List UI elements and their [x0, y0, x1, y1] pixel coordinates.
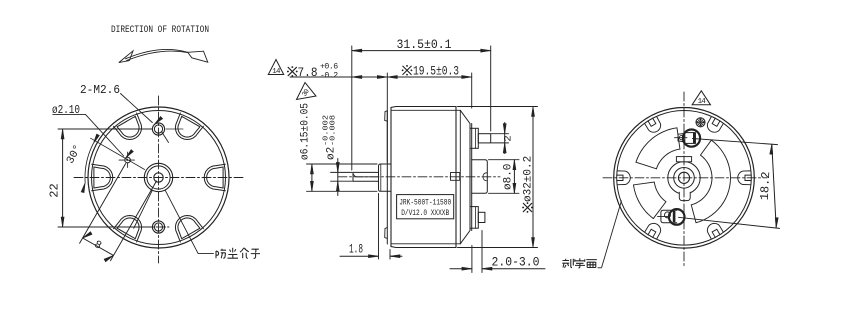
dimension ※ø32±0.2 can diameter [458, 106, 538, 108]
front view hole ø2.10 at 30deg [125, 157, 131, 163]
revision flag triangle 30 rotated [297, 83, 317, 100]
back view vent band right [691, 140, 730, 223]
side view name plate box [397, 195, 454, 219]
back view terminal bottom [669, 209, 685, 225]
back view boss top tab [676, 157, 691, 162]
svg-text:ø32±0.2: ø32±0.2 [523, 156, 535, 202]
side view front plate crimp tab bottom [385, 228, 388, 239]
angular dimension 30deg arc [85, 144, 93, 183]
back view center bearing boss circle [668, 162, 700, 194]
svg-text:2: 2 [503, 135, 515, 141]
back view warning triangle flag [692, 91, 710, 105]
dimension 22 (hole spacing) left side [58, 128, 152, 130]
front view vent slots (6x D-shaped cutouts) [204, 164, 225, 191]
svg-text:-0.2: -0.2 [320, 71, 338, 80]
front view 30deg radial construction line [91, 138, 145, 169]
svg-text:D/V12.0 XXXXB: D/V12.0 XXXXB [401, 208, 449, 218]
side view front plate [386, 111, 388, 245]
direction of rotation curved arrow [126, 49, 188, 58]
svg-text:18.2: 18.2 [758, 171, 773, 201]
side view shaft flat line [354, 174, 379, 177]
dimension 7.8 shaft length [386, 73, 388, 162]
back view inner rim circle [617, 111, 752, 246]
svg-text:7.8: 7.8 [298, 66, 318, 80]
svg-text:19.5±0.3: 19.5±0.3 [413, 64, 459, 78]
svg-text:ø2: ø2 [326, 147, 338, 160]
dimension ø8.0 rear boss [489, 159, 520, 161]
back view center circles [674, 168, 695, 189]
front view washer arm line lower-right / leader to dust-washer label [165, 190, 198, 253]
side view rear bearing boss [472, 160, 488, 194]
svg-text:2.0-3.0: 2.0-3.0 [492, 256, 540, 270]
svg-text:1.8: 1.8 [349, 243, 363, 257]
back view vent band lower-left [634, 182, 666, 219]
dimension 19.5±0.3 can length [471, 73, 473, 108]
svg-text:ø6.15±0.05: ø6.15±0.05 [300, 103, 312, 160]
front view outer circle (motor face) [88, 107, 229, 248]
dimension ø2 shaft diameter [331, 171, 352, 173]
back view crimp cups (6x) [738, 171, 750, 185]
svg-text:JRK-500T-11580: JRK-500T-11580 [399, 199, 451, 208]
svg-text:2-M2.6: 2-M2.6 [80, 83, 120, 97]
side view shaft [353, 171, 379, 173]
dimension 2.0-3.0 terminal length [471, 246, 473, 273]
side view brush window rect [451, 173, 460, 181]
svg-text:ø8.0: ø8.0 [503, 164, 515, 190]
back view vent band upper-left [636, 128, 680, 169]
front view shaft boss circles [144, 163, 172, 191]
svg-text:14: 14 [272, 68, 281, 76]
label dust washer characters [216, 249, 226, 259]
svg-text:-0.008: -0.008 [330, 115, 338, 146]
side view can inner rim lines [391, 109, 460, 111]
front view M2.6 mounting hole bottom [152, 221, 164, 233]
front view washer arm line lower-left [134, 190, 153, 228]
side view motor can body [391, 107, 456, 248]
dimension 18.2 terminal spacing oblique [693, 139, 778, 145]
back view phillips screw head [696, 118, 705, 127]
revision flag triangle 14 [268, 60, 283, 75]
label dust washer (fang chen jie zi) leader [198, 252, 213, 254]
side view front plate crimp tab top [385, 111, 388, 121]
svg-text:14: 14 [698, 98, 707, 106]
dimension 2 terminal thickness [492, 133, 509, 135]
back view centerline vertical [683, 92, 685, 268]
back view outer circle [614, 108, 755, 249]
svg-text:DIRECTION OF ROTATION: DIRECTION OF ROTATION [111, 25, 209, 36]
front view inner rim circle [92, 111, 226, 245]
dimension ø6.15±0.05 boss diameter [307, 163, 378, 165]
side view bearing boss [379, 164, 392, 191]
back view boss bottom notch [679, 192, 690, 200]
dimension 1.8 boss protrusion [378, 194, 380, 260]
side view rear pip [483, 173, 487, 181]
svg-text:22: 22 [48, 183, 62, 197]
dimension 8 oblique (hole offset) [80, 164, 126, 244]
label 7.8 +0.6/-0.2 [288, 67, 296, 75]
label kezimian (engraved face) [562, 259, 573, 268]
side view axis centerline [338, 176, 500, 178]
front view M2.6 mounting hole top [152, 123, 164, 135]
kezimian leader line [598, 267, 602, 269]
side view terminal top [470, 128, 478, 148]
side view end cap [455, 107, 457, 248]
front view centerline horizontal [74, 177, 243, 179]
svg-text:31.5±0.1: 31.5±0.1 [397, 38, 452, 52]
back view centerline horizontal [603, 177, 767, 179]
back view terminal top [683, 130, 700, 147]
front view centerline vertical [158, 96, 160, 263]
dimension 31.5±0.1 overall length [351, 46, 353, 170]
svg-text:+0.6: +0.6 [320, 62, 338, 71]
side view terminal bottom [470, 207, 478, 229]
